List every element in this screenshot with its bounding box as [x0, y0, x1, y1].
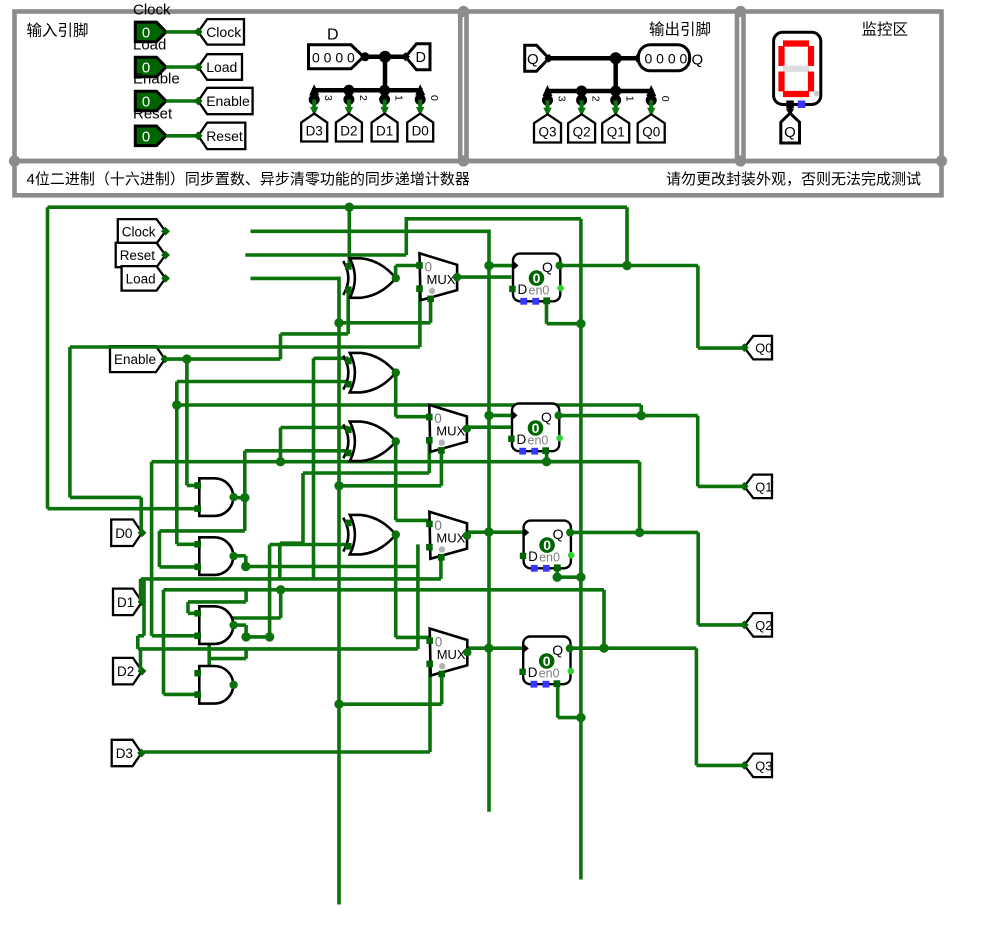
D flip-flop FF3 enable output dot: [568, 552, 575, 559]
wire MUX2 select riser: [440, 452, 444, 486]
bus junction on D wire: [379, 51, 391, 63]
XOR gate X4 (bit3): [343, 515, 396, 555]
wire MUX1 select riser: [429, 299, 433, 323]
wire Q0 to AND1 in2: [48, 507, 198, 511]
wire Q0 down to tunnel: [696, 266, 700, 349]
XOR gate X3 (bit2): [343, 422, 396, 462]
junction FF3 rst: [553, 573, 562, 582]
wire to XOR3 in2: [245, 449, 348, 453]
frame: title bar border: [15, 161, 942, 195]
svg-text:D: D: [528, 549, 538, 564]
wire down to AND2 in2: [158, 531, 162, 567]
svg-text:Load: Load: [133, 37, 166, 54]
svg-text:0 0 0 0: 0 0 0 0: [645, 51, 688, 67]
junction FF2 Q: [637, 411, 646, 420]
wire D0 west vertical: [68, 347, 72, 497]
wire XOR4 out to MUX4 in0: [396, 636, 430, 640]
D flip-flop FF2 D input pin: [508, 436, 514, 442]
wire to tunnel Q1: [698, 485, 745, 489]
svg-text:D3: D3: [306, 124, 323, 139]
wire XOR2 out drop: [394, 370, 398, 417]
wire to tunnel Q0: [698, 346, 744, 350]
wire display to tunnel Q: [788, 105, 792, 112]
frame: input panel border: [15, 12, 461, 162]
D flip-flop FF4 enable output dot: [568, 668, 575, 675]
junction AND3 out: [241, 632, 250, 641]
tunnel D2 (input side): [336, 114, 362, 142]
multiplexer MUX1 output: [453, 273, 461, 281]
tunnel D1 (input side): [372, 114, 398, 142]
wire step-down vertical: [142, 579, 146, 636]
svg-text:Q1: Q1: [755, 479, 772, 494]
svg-text:Q2: Q2: [755, 618, 772, 633]
svg-text:Q: Q: [542, 259, 553, 275]
splitter D spine: [312, 88, 423, 93]
wire Q2 to AND3 in2: [152, 634, 198, 638]
wire stairs middle run: [280, 541, 303, 545]
wire AND2 out drop: [244, 556, 248, 567]
AND gate A1 output: [229, 493, 237, 501]
wire D1 run: [141, 577, 441, 581]
tunnel Q0 (output side): [638, 114, 665, 142]
tunnel Enable (main): [110, 346, 169, 372]
AND gate A4: [199, 666, 233, 704]
D flip-flop FF2 enable output dot: [556, 435, 563, 442]
frame: monitor panel border: [744, 12, 942, 162]
wire reset riser: [404, 219, 408, 255]
wire AND3 out run: [246, 635, 270, 639]
frame: output panel border: [467, 12, 738, 162]
XOR gate X1 (bit0) input pin 2: [345, 286, 352, 293]
svg-text:D: D: [518, 282, 528, 297]
D flip-flop FF2 reset pin: [542, 447, 549, 454]
svg-text:D2: D2: [117, 664, 134, 679]
svg-text:D: D: [528, 665, 538, 680]
wire snake1 run: [188, 600, 246, 604]
wire to AND4 in2: [164, 693, 198, 697]
wire enable to XOR1 in2: [346, 289, 350, 334]
svg-text:Q3: Q3: [538, 125, 556, 140]
D flip-flop FF1 Q output: [556, 262, 564, 270]
wire XOR2 in1 drop: [312, 358, 316, 579]
tunnel Q1 (output side): [602, 114, 629, 142]
wire pin Enable to tunnel: [166, 99, 198, 103]
svg-text:3: 3: [322, 95, 334, 101]
wire Enable tunnel east: [165, 357, 281, 361]
multiplexer MUX2 input 1: [426, 437, 433, 444]
junction AND3 out 2: [265, 632, 274, 641]
splitter Q leg 1: [610, 86, 621, 97]
svg-text:Q: Q: [552, 642, 563, 658]
wire FF3 rst link: [557, 575, 581, 579]
multiplexer MUX4 select pin: [438, 671, 445, 678]
D flip-flop FF1 reset pin: [543, 297, 550, 304]
wire D2 branch run: [209, 657, 246, 661]
wire D0 run: [70, 345, 420, 349]
wire AND1 out west run: [159, 529, 244, 533]
junction reset FF4: [576, 713, 585, 722]
svg-text:D: D: [517, 432, 527, 447]
wire MUX3 out to FF3: [466, 530, 523, 534]
frame corner dot: [9, 155, 20, 166]
multiplexer MUX4: [430, 629, 468, 676]
svg-text:D1: D1: [376, 124, 393, 139]
tunnel Clock (input side): [194, 19, 244, 44]
wire Q2 west vertical: [150, 462, 154, 636]
D flip-flop FF3 async pin 2 (blue): [543, 565, 550, 572]
junction load MUX1 select: [334, 318, 343, 327]
svg-text:Reset: Reset: [206, 128, 243, 144]
XOR gate X4 (bit3) output: [392, 530, 400, 538]
multiplexer MUX3 select pin: [438, 554, 445, 561]
D flip-flop FF3 async pin 1 (blue): [531, 565, 538, 572]
D flip-flop FF2: [512, 404, 559, 452]
wire MUX2 out to FF2: [467, 425, 512, 429]
svg-text:D2: D2: [340, 124, 357, 139]
svg-text:1: 1: [393, 95, 405, 101]
wire Q3 feedback row: [164, 588, 605, 592]
wire enable east run: [281, 332, 349, 336]
tunnel D3 (main): [112, 740, 146, 766]
wire FF2 Q east: [561, 414, 698, 418]
AND gate A1: [199, 478, 233, 516]
svg-text:输入引脚: 输入引脚: [27, 22, 89, 40]
wire Q0 feedback riser: [625, 207, 629, 265]
arrowhead into tunnel Q: [786, 109, 794, 117]
bus wire D pin to tunnel D: [364, 55, 407, 60]
wire reset vertical spine: [579, 219, 583, 880]
wire to tunnel Q2: [698, 623, 744, 627]
tunnel Q (monitor): [781, 113, 800, 143]
svg-text:Q: Q: [553, 526, 564, 542]
AND gate A2 output: [229, 552, 237, 560]
svg-text:Load: Load: [126, 271, 156, 286]
splitter Q leg 0: [646, 85, 656, 96]
D flip-flop FF2 async pin 2 (blue): [531, 448, 538, 455]
input pin Load: [135, 57, 166, 77]
svg-text:MUX: MUX: [436, 423, 465, 438]
wire FF1 rst link: [547, 322, 581, 326]
wire to AND2 in2: [159, 565, 197, 569]
wire step-down jog: [138, 634, 144, 638]
wire snake2 run: [209, 616, 281, 620]
junction clock to FF1: [484, 261, 493, 270]
input pin Reset: [135, 126, 166, 146]
wire MUX3 in1 drop: [416, 544, 420, 649]
tunnel D2 (main): [113, 658, 146, 685]
junction Q0 to XOR1: [345, 203, 354, 212]
AND gate A3 input pin 2: [194, 633, 201, 640]
svg-text:4位二进制（十六进制）同步置数、异步清零功能的同步递增计数器: 4位二进制（十六进制）同步置数、异步清零功能的同步递增计数器: [27, 171, 470, 188]
wire Q3 down to tunnel: [695, 648, 699, 765]
svg-text:D1: D1: [117, 595, 134, 610]
wire enable riser: [279, 334, 283, 359]
tunnel Q0 (main): [740, 336, 772, 360]
wire MUX4 out to FF4: [467, 646, 523, 650]
tunnel D0 (main): [111, 520, 146, 547]
pin cap on D probe: [361, 52, 370, 61]
XOR gate X2 (bit1): [343, 353, 396, 393]
D flip-flop FF4 Q output: [566, 644, 574, 652]
AND gate A2 input pin 1: [194, 541, 201, 548]
wire Q0 feedback top run: [48, 205, 628, 209]
svg-text:0: 0: [428, 95, 440, 101]
XOR gate X2 (bit1) input pin 1: [345, 358, 352, 365]
wire AND3 out drop: [244, 625, 248, 637]
splitter Q leg 2: [576, 86, 587, 97]
D flip-flop FF2 Q output: [555, 411, 563, 419]
junction load MUX2 select: [334, 481, 343, 490]
frame corner dot: [936, 155, 947, 166]
svg-text:输出引脚: 输出引脚: [649, 21, 711, 39]
AND gate A1 input pin 1: [194, 482, 201, 489]
svg-text:D0: D0: [412, 124, 429, 139]
wire AND1 out stub: [233, 496, 245, 500]
tunnel D0 (input side): [407, 114, 433, 142]
wire XOR3 out to MUX3 in0: [396, 519, 430, 523]
bus wire down to splitter D: [383, 57, 388, 91]
tunnel Q3 (output side): [534, 114, 561, 142]
D flip-flop FF4: [523, 637, 570, 685]
wire Q2 riser to XOR3 in1: [279, 428, 283, 462]
wire pin Reset to tunnel: [166, 134, 198, 138]
AND gate A1 input pin 2: [194, 505, 201, 512]
input pin Enable: [135, 91, 166, 111]
wire AND column vertical: [243, 451, 247, 531]
AND gate A2 input pin 2: [194, 564, 201, 571]
wire to XOR4 in2: [270, 543, 349, 547]
svg-text:Q2: Q2: [573, 125, 591, 140]
D flip-flop FF1 async pin 1 (blue): [520, 298, 527, 305]
wire Q2 feedback riser: [638, 462, 642, 533]
svg-text:1: 1: [624, 96, 636, 102]
wire MUX4 select riser: [440, 674, 444, 705]
wire Q1 to XOR2 in2: [177, 380, 348, 384]
tunnel Enable (input side): [194, 88, 253, 114]
frame corner dot: [458, 155, 469, 166]
svg-text:请勿更改封装外观，否则无法完成测试: 请勿更改封装外观，否则无法完成测试: [666, 171, 921, 188]
wire XOR2 out to MUX2 in0: [396, 415, 430, 419]
wire Q2 down to tunnel: [696, 532, 700, 625]
D flip-flop FF1 async pin 2 (blue): [532, 298, 539, 305]
D flip-flop FF2 async pin 1 (blue): [519, 448, 526, 455]
wire load to MUX4 select riser: [339, 702, 442, 706]
wire clock to FF1 clk: [489, 264, 513, 268]
junction snake2: [276, 585, 285, 594]
XOR gate X3 (bit2) input pin 1: [345, 426, 352, 433]
wire MUX1 in1 drop: [418, 289, 422, 347]
splitter D leg 1: [379, 85, 390, 96]
wire Load tunnel east: [251, 277, 340, 281]
svg-text:en0: en0: [528, 433, 549, 447]
wire Clock tunnel to clock spine: [251, 230, 490, 234]
D flip-flop FF1 enable output dot: [557, 285, 564, 292]
svg-text:D: D: [327, 27, 339, 44]
wire enable to AND1 in1: [187, 484, 198, 488]
wire AND2 out stub: [233, 554, 246, 558]
svg-text:监控区: 监控区: [862, 21, 909, 39]
wire FF4 Q east: [571, 646, 696, 650]
wire snake1 vertical: [186, 602, 190, 613]
wire FF4 rst pin down: [556, 684, 560, 717]
junction clock to FF2: [484, 411, 493, 420]
wire to XOR2 in1: [314, 356, 349, 360]
wire FF3 rst pin down: [555, 567, 559, 577]
wire stairs vertical: [301, 473, 305, 543]
wire MUX1 out to FF1: [454, 275, 512, 279]
svg-text:2: 2: [590, 96, 602, 102]
junction clock to FF3: [484, 527, 493, 536]
junction Q3 feedback: [599, 643, 608, 652]
input pin Clock: [135, 22, 166, 42]
XOR gate X4 (bit3) input pin 2: [345, 543, 352, 550]
wire XOR4 out drop: [394, 533, 398, 638]
svg-text:Q0: Q0: [642, 125, 660, 140]
junction Q2 to XOR3: [276, 457, 285, 466]
multiplexer MUX2 select pin: [438, 447, 445, 454]
wire to AND3 in1: [188, 611, 198, 615]
wire AND3 out stub: [233, 623, 246, 627]
multiplexer MUX1 input 0: [416, 262, 423, 269]
AND gate A4 input pin 1: [194, 670, 201, 677]
AND gate A2: [199, 537, 233, 575]
svg-text:Enable: Enable: [206, 93, 250, 109]
multiplexer MUX4 input 1: [426, 661, 433, 668]
svg-text:2: 2: [357, 95, 369, 101]
tunnel D3 (input side): [301, 114, 327, 142]
tunnel D (input side): [401, 44, 430, 70]
svg-text:en0: en0: [539, 550, 560, 564]
svg-text:Clock: Clock: [122, 224, 156, 239]
junction enable: [182, 354, 191, 363]
bus wire down to splitter Q: [613, 58, 618, 91]
D flip-flop FF3: [524, 521, 571, 569]
XOR gate X2 (bit1) input pin 2: [345, 381, 352, 388]
svg-text:D0: D0: [115, 526, 132, 541]
output pin Q (4-bit, value 0 0 0 0): [635, 45, 690, 71]
D flip-flop FF4 reset pin: [554, 680, 561, 687]
svg-text:Enable: Enable: [114, 352, 156, 367]
multiplexer MUX3 output: [463, 531, 471, 539]
wire clock vertical spine: [487, 230, 491, 812]
svg-text:en0: en0: [529, 283, 550, 297]
XOR gate X2 (bit1) output: [392, 368, 400, 376]
svg-text:0: 0: [142, 128, 150, 145]
wire Q1 to AND2 in1: [177, 542, 198, 546]
junction FF2 rst: [542, 457, 551, 466]
svg-text:Enable: Enable: [133, 71, 180, 88]
wire Reset tunnel east: [245, 253, 406, 257]
7-segment second pin (blue, unconnected): [798, 101, 806, 109]
wire Q2 feedback run: [152, 460, 640, 464]
svg-text:Reset: Reset: [120, 248, 156, 263]
tunnel Q3 (main): [740, 754, 772, 778]
wire FF1 rst pin down: [545, 301, 549, 323]
junction FF1 Q: [622, 261, 631, 270]
svg-text:Q3: Q3: [755, 758, 772, 773]
svg-text:0 0 0 0: 0 0 0 0: [312, 50, 355, 66]
junction Q1 west: [172, 400, 181, 409]
multiplexer MUX2 output: [463, 425, 471, 433]
input pin D (4-bit, value 0 0 0 0): [309, 45, 364, 69]
junction FF3 Q: [635, 528, 644, 537]
D flip-flop FF4 async pin 2 (blue): [543, 681, 550, 688]
frame corner dot: [735, 155, 746, 166]
7-segment input pin stub (black): [786, 101, 794, 109]
tunnel Load (main): [122, 266, 170, 291]
svg-text:MUX: MUX: [437, 647, 466, 662]
wire D3 run: [141, 750, 430, 754]
junction load MUX4 select: [334, 700, 343, 709]
D flip-flop FF3 D input pin: [520, 553, 526, 559]
wire load vertical spine: [337, 277, 341, 905]
XOR gate X1 (bit0) output: [392, 274, 400, 282]
wire XOR1 out to MUX1 in0: [396, 264, 420, 268]
bus wire tunnel Q to output pin: [549, 56, 639, 61]
multiplexer MUX4 input 0: [426, 637, 433, 644]
tunnel Clock (main): [118, 219, 170, 244]
wire D2 run: [138, 647, 418, 651]
frame corner dot: [735, 6, 746, 17]
wire Q1 down to tunnel: [696, 416, 700, 487]
D flip-flop FF1: [513, 254, 560, 302]
svg-text:Clock: Clock: [133, 1, 171, 18]
svg-text:Load: Load: [206, 59, 237, 75]
multiplexer MUX2: [429, 405, 467, 452]
AND gate A3 output: [229, 621, 237, 629]
wire step-down vertical 2: [136, 636, 140, 649]
multiplexer MUX2 input 0: [426, 414, 433, 421]
splitter D leg 3: [309, 84, 319, 95]
wire stairs lower vertical: [278, 543, 282, 579]
multiplexer MUX4 output: [463, 648, 471, 656]
tunnel Reset (main): [116, 243, 170, 267]
wire to AND4 in1: [198, 671, 210, 675]
wire D2 branch down: [244, 649, 248, 659]
junction AND2 out: [241, 562, 250, 571]
wire XOR1 out riser: [394, 266, 398, 278]
svg-text:en0: en0: [539, 666, 560, 680]
AND gate A4 output: [229, 681, 237, 689]
wire Q0 feedback west vertical: [46, 207, 50, 509]
svg-text:3: 3: [556, 96, 568, 102]
wire enable down to AND1: [185, 359, 189, 485]
wire to XOR3 in1: [281, 426, 349, 430]
wire clock to FF2 clk: [489, 414, 512, 418]
multiplexer MUX1: [420, 253, 458, 300]
wire load to MUX1 select riser: [339, 321, 431, 325]
tunnel Q2 (main): [740, 613, 772, 637]
wire reset top run: [405, 217, 581, 221]
wire D1 tunnel riser: [139, 579, 143, 602]
wire snake1 drop: [244, 590, 248, 602]
wire Q0 down to XOR1 in1: [347, 207, 351, 265]
tunnel D1 (main): [113, 589, 146, 616]
wire Q1 feedback riser: [639, 405, 643, 416]
svg-text:0: 0: [659, 96, 671, 102]
svg-text:Reset: Reset: [133, 105, 173, 122]
tunnel Q2 (output side): [568, 114, 595, 142]
svg-text:Q: Q: [527, 51, 539, 68]
wire stairs top run: [303, 471, 429, 475]
wire FF3 Q east: [572, 531, 699, 535]
svg-text:Clock: Clock: [206, 24, 242, 40]
wire load to MUX2 select riser: [339, 484, 441, 488]
splitter Q leg 3: [543, 85, 553, 96]
wire Q3 feedback riser: [602, 590, 606, 648]
splitter Q spine: [546, 89, 654, 94]
D flip-flop FF1 D input pin: [509, 286, 515, 292]
